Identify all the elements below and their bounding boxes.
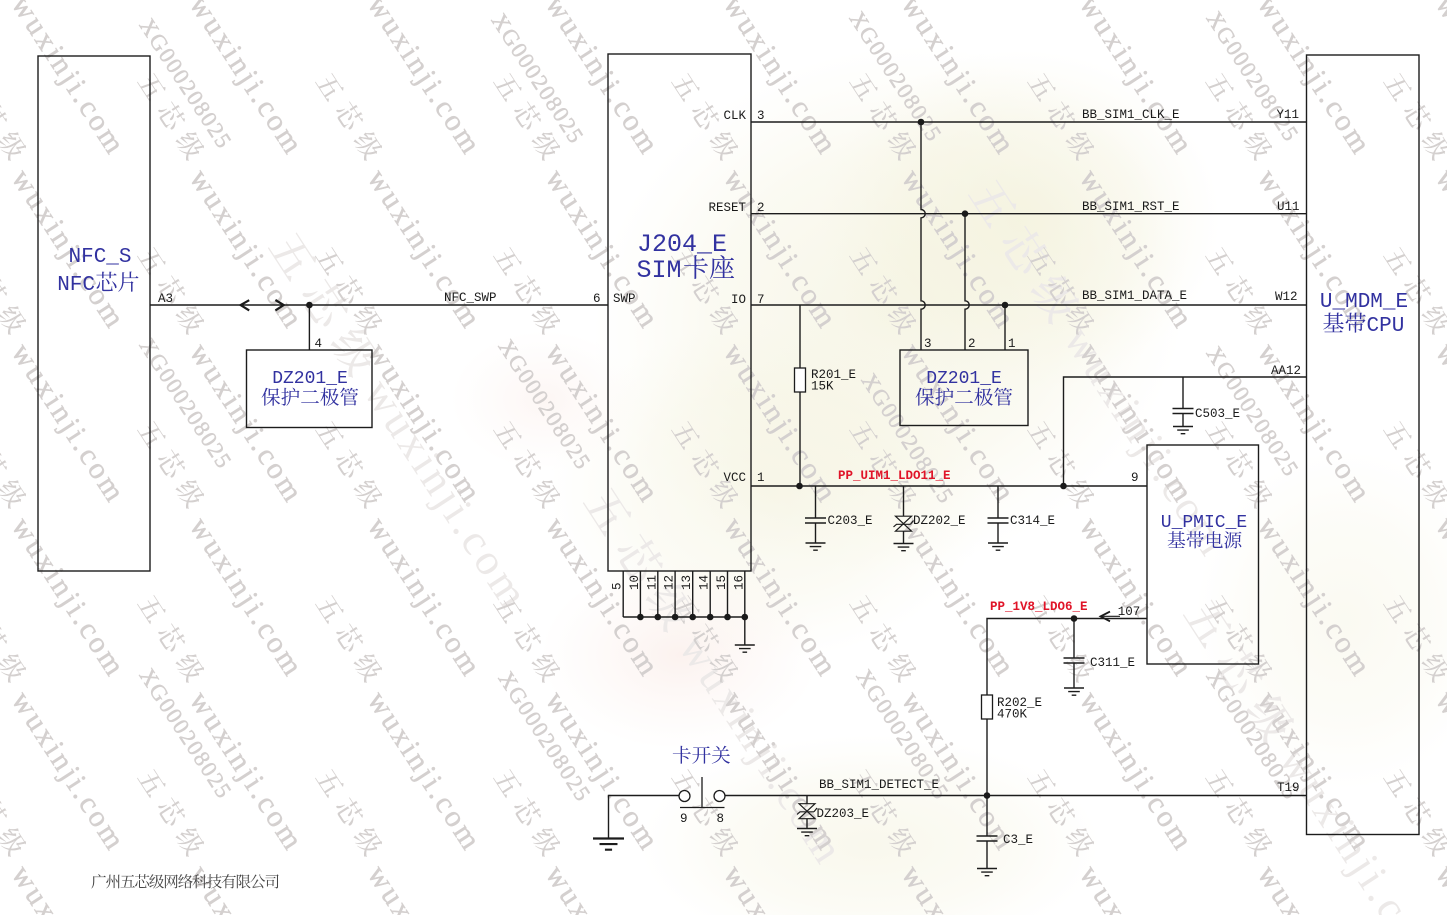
svg-text:DZ201_E: DZ201_E: [926, 369, 1002, 389]
title 卡开关 (card switch): [673, 746, 691, 764]
wire BB_SIM1_CLK_E (J204 CLK pin 3 to CPU Y11): [751, 121, 1307, 123]
resistor R202_E body: [982, 695, 993, 719]
svg-text:A3: A3: [158, 292, 173, 306]
svg-text:2: 2: [968, 337, 976, 351]
svg-text:C503_E: C503_E: [1195, 407, 1240, 421]
baseband power box U_PMIC_E: [1147, 445, 1259, 664]
wire C311 stem: [1073, 619, 1075, 689]
protection diode box DZ201_E (left): [247, 350, 373, 428]
ground under C314: [988, 543, 1008, 550]
svg-text:SWP: SWP: [613, 292, 636, 306]
svg-text:J204_E: J204_E: [637, 230, 727, 259]
wire switch left to ground: [609, 796, 680, 839]
svg-text:W12: W12: [1275, 290, 1298, 304]
wire C3 stem: [986, 796, 988, 869]
svg-text:10: 10: [628, 575, 642, 590]
svg-text:U_MDM_E: U_MDM_E: [1320, 291, 1408, 314]
svg-text:13: 13: [680, 575, 694, 590]
capacitor C311_E: [1064, 658, 1085, 663]
svg-text:Y11: Y11: [1277, 108, 1300, 122]
wire DZ202 stem: [903, 486, 905, 544]
capacitor C314_E: [988, 518, 1009, 523]
svg-text:6: 6: [593, 292, 601, 306]
wire AA12 net (CPU AA12 left, down to VCC net): [1064, 377, 1307, 486]
svg-text:NFC_SWP: NFC_SWP: [444, 291, 497, 305]
card switch actuator: [680, 777, 725, 808]
wire R201 vertical from IO to VCC: [799, 305, 801, 486]
wire BB_SIM1_DATA_E (J204 IO pin 7 to CPU W12): [751, 304, 1307, 306]
SIM connector box J204_E: [608, 54, 751, 571]
svg-text:VCC: VCC: [723, 471, 746, 485]
svg-text:NFC_S: NFC_S: [68, 246, 131, 269]
svg-text:CLK: CLK: [723, 109, 746, 123]
svg-text:DZ202_E: DZ202_E: [913, 514, 966, 528]
svg-text:11: 11: [645, 575, 659, 590]
capacitor C3_E: [977, 836, 998, 841]
card switch contacts: [679, 791, 725, 802]
bidirectional arrow on NFC_SWP wire: [241, 300, 284, 310]
svg-text:DZ203_E: DZ203_E: [817, 807, 870, 821]
wire DZ201 pin2 vertical with hop over DATA: [965, 214, 969, 350]
protection diode box DZ201_E (right): [900, 350, 1028, 426]
junction dots: [306, 302, 313, 309]
wire C203 stem: [815, 486, 817, 543]
wire BB_SIM1_RST_E (J204 RESET pin 2 to CPU U11): [751, 213, 1307, 215]
svg-text:2: 2: [757, 201, 765, 215]
svg-text:1: 1: [757, 471, 765, 485]
TVS diode DZ202_E: [894, 516, 914, 531]
J204 bottom pins 5,10..16 to ground bus: [622, 571, 624, 617]
svg-text:T19: T19: [1277, 781, 1300, 795]
svg-text:107: 107: [1118, 605, 1141, 619]
svg-text:12: 12: [663, 575, 677, 590]
ground under C203: [806, 543, 826, 550]
wire BB_SIM1_DETECT_E (switch to CPU T19): [725, 795, 1307, 797]
svg-text:5: 5: [611, 582, 625, 590]
svg-text:AA12: AA12: [1271, 364, 1301, 378]
svg-text:C311_E: C311_E: [1090, 656, 1135, 670]
svg-text:3: 3: [757, 109, 765, 123]
baseband CPU box U_MDM_E: [1307, 55, 1420, 835]
ground at card switch: [593, 839, 624, 850]
svg-text:7: 7: [757, 293, 765, 307]
svg-text:9: 9: [680, 812, 688, 826]
svg-text:DZ201_E: DZ201_E: [272, 369, 348, 389]
svg-text:SIM: SIM: [636, 256, 681, 285]
wire DZ201 pin3 vertical with hops over RST and DATA: [921, 122, 925, 350]
svg-text:3: 3: [924, 337, 932, 351]
TVS diode DZ203_E: [797, 804, 817, 819]
wire DZ203 stem: [806, 796, 808, 829]
svg-text:PP_1V8_LDO6_E: PP_1V8_LDO6_E: [990, 600, 1088, 614]
svg-text:15: 15: [715, 575, 729, 590]
svg-text:BB_SIM1_RST_E: BB_SIM1_RST_E: [1082, 200, 1180, 214]
company name 广州五芯级网络科技有限公司: [91, 874, 105, 888]
svg-text:PP_UIM1_LDO11_E: PP_UIM1_LDO11_E: [838, 469, 951, 483]
arrow on PP_1V8_LDO6_E wire (pin 107): [1101, 612, 1111, 622]
resistor R201_E body: [795, 368, 806, 392]
ground under DZ203: [797, 829, 817, 836]
svg-text:U11: U11: [1277, 200, 1300, 214]
J204 bottom pin numbers 5,10-16 (rotated): [611, 582, 625, 590]
wire NFC_SWP net (NFC A3 to J204 SWP pin 6): [150, 304, 608, 306]
ground under C311: [1064, 688, 1084, 695]
svg-text:NFC: NFC: [57, 274, 95, 297]
svg-text:BB_SIM1_CLK_E: BB_SIM1_CLK_E: [1082, 108, 1180, 122]
svg-text:BB_SIM1_DATA_E: BB_SIM1_DATA_E: [1082, 289, 1187, 303]
svg-text:U_PMIC_E: U_PMIC_E: [1161, 513, 1247, 533]
svg-text:8: 8: [717, 812, 725, 826]
ground bus under J204: [623, 617, 745, 645]
wire PP_1V8_LDO6_E (PMIC pin 107 left then down through R202): [987, 619, 1147, 796]
svg-text:CPU: CPU: [1367, 315, 1405, 338]
svg-text:IO: IO: [731, 293, 746, 307]
svg-text:RESET: RESET: [708, 201, 746, 215]
wire DZ201(left) pin4 vertical: [308, 305, 310, 350]
ground under C3: [977, 869, 997, 876]
wire PP_UIM1_LDO11_E (J204 VCC pin1 to PMIC pin 9): [751, 485, 1147, 487]
svg-text:14: 14: [698, 575, 712, 590]
ground under C503: [1173, 427, 1193, 434]
svg-text:C314_E: C314_E: [1010, 514, 1055, 528]
svg-text:1: 1: [1008, 337, 1016, 351]
ground under J204 pin bus: [735, 645, 755, 652]
svg-text:9: 9: [1131, 471, 1139, 485]
capacitor C203_E: [805, 518, 826, 523]
capacitor C503_E: [1173, 409, 1194, 414]
wire C314 stem: [997, 486, 999, 543]
ground under DZ202: [894, 544, 914, 551]
wire DZ201 pin1 vertical: [1004, 305, 1006, 350]
NFC chip box U NFC_S: [38, 56, 150, 571]
svg-text:15K: 15K: [811, 380, 834, 394]
svg-text:470K: 470K: [997, 708, 1028, 722]
wire C503 stem: [1182, 377, 1184, 427]
svg-text:4: 4: [315, 337, 323, 351]
svg-text:C203_E: C203_E: [828, 514, 873, 528]
svg-text:C3_E: C3_E: [1003, 833, 1033, 847]
svg-text:16: 16: [732, 575, 746, 590]
svg-text:BB_SIM1_DETECT_E: BB_SIM1_DETECT_E: [819, 778, 939, 792]
